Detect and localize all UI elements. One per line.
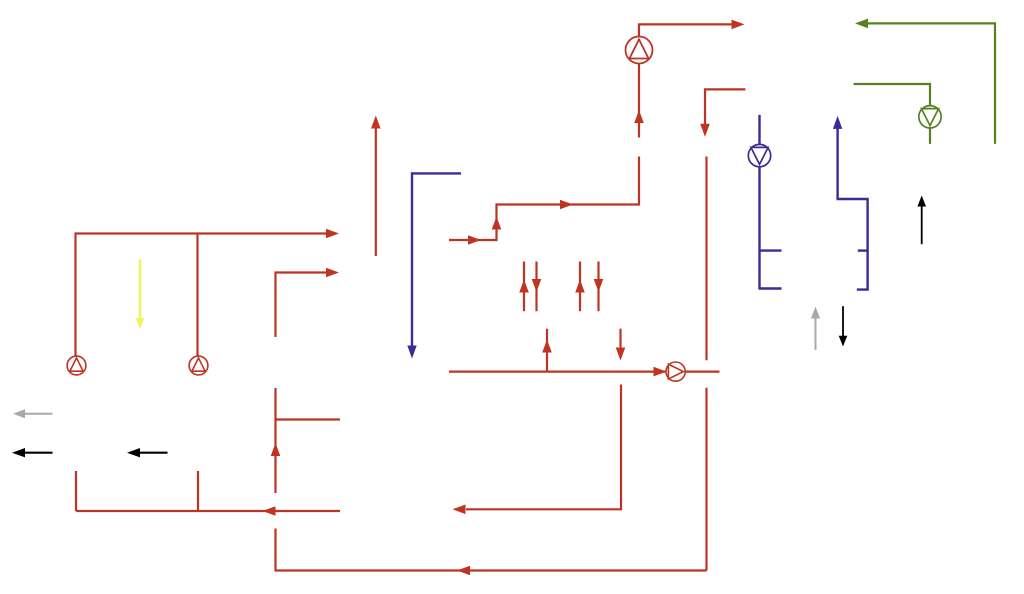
arrow blue into chiller bottom — [833, 116, 842, 129]
wire WW loading line — [412, 173, 461, 352]
wire BHKW2 return drop — [197, 471, 199, 511]
wire WW riser — [375, 128, 377, 256]
arrow up HK1 supply — [519, 280, 529, 293]
green recooling circuit — [854, 23, 996, 143]
wire NT return top corner — [837, 199, 868, 290]
wire chiller to NT pump — [758, 115, 760, 145]
wire HK1 supply drop — [523, 262, 525, 312]
arrow right on HK header — [560, 200, 573, 210]
wire return line to BHKW — [76, 510, 340, 512]
wire chiller HT return — [705, 89, 745, 129]
arrow return toward BHKW — [263, 506, 276, 516]
wire PWT to HT pump — [638, 64, 640, 138]
arrow gas line tip — [136, 318, 145, 329]
arrow into storage right low — [453, 505, 466, 515]
wire NT return riser — [836, 127, 838, 199]
wire HT pump to chiller — [639, 24, 733, 36]
black arrow down from fancoil2 — [842, 306, 844, 338]
wire HK2 return drop — [597, 262, 599, 312]
wire branch to storage bottom — [276, 418, 341, 420]
wire PWT secondary outlet — [705, 157, 707, 361]
wire gas boiler feed lower — [276, 529, 707, 571]
arrow green into chiller — [855, 19, 868, 29]
wire Verteiler riser — [546, 329, 548, 372]
Abgas arrow BHKW1 — [23, 452, 53, 454]
arrow before pump — [654, 367, 667, 377]
wire return drop to storage — [466, 385, 621, 510]
arrow up into gas boiler — [271, 443, 281, 456]
arrow down HK2 return — [594, 279, 604, 292]
wire gas line — [139, 260, 142, 322]
wire BHKW supply header — [76, 234, 328, 357]
wire BHKW2 riser — [196, 234, 198, 357]
wire chiller to recool pump — [854, 84, 931, 106]
wire pump outlet — [685, 371, 719, 373]
wire HK1 return drop — [535, 262, 537, 312]
wire storage to HK header — [449, 157, 639, 241]
pump P1 BHKW1 — [67, 356, 86, 375]
pump P6 chilled water — [748, 144, 770, 166]
wire recool pump to recooler — [929, 128, 931, 144]
wire PWT return long drop — [705, 388, 707, 571]
wire gas boiler supply to storage — [276, 273, 329, 338]
wire gas boiler feed upper — [274, 388, 276, 493]
wire stub fancoil1 left — [760, 249, 782, 251]
arrow into storage second — [326, 268, 339, 278]
wire stub fancoil1 right — [858, 249, 868, 251]
wire recooler to chiller top — [861, 23, 995, 143]
wire stub fancoil2 left — [758, 287, 781, 289]
SENSORS — [76, 24, 746, 570]
arrow on bottom return line — [457, 566, 470, 576]
blue chilled water circuit — [412, 115, 868, 352]
GAS feed yellow — [139, 260, 142, 322]
electric measurement fancoil gray arrow — [815, 313, 817, 350]
arrow WW riser tip — [371, 116, 381, 129]
arrow up into Verteiler — [542, 340, 552, 353]
wire Verteiler return drop — [619, 329, 621, 353]
wire BHKW1 return drop — [75, 471, 77, 511]
arrow into storage top — [326, 229, 339, 239]
arrow down into PWT — [700, 124, 710, 137]
Abgas arrow BHKW2 — [138, 452, 168, 454]
arrow up HK2 supply — [575, 280, 585, 293]
wire HK2 supply drop — [579, 262, 581, 312]
pump P2 BHKW2 — [189, 356, 208, 375]
arrow up to HT pump — [634, 110, 644, 123]
wire NT pump into salesroom — [758, 167, 760, 289]
pump P5 recooling — [919, 106, 941, 128]
arrow blue down in WW storage — [407, 346, 416, 359]
arrow after storage right top — [468, 235, 481, 245]
pump P3 heating circuit — [666, 362, 685, 381]
Frischwasser arrow — [921, 204, 923, 245]
electric measurement BHKW1 gray arrow — [22, 413, 53, 415]
pump P4 Antriebskreis — [626, 37, 653, 64]
arrow up on HK header riser — [492, 217, 502, 230]
arrow down from Verteiler — [616, 348, 626, 361]
arrow down HK1 return — [532, 279, 542, 292]
wire pump line from storage — [449, 371, 666, 373]
arrow into chiller left — [732, 20, 745, 30]
